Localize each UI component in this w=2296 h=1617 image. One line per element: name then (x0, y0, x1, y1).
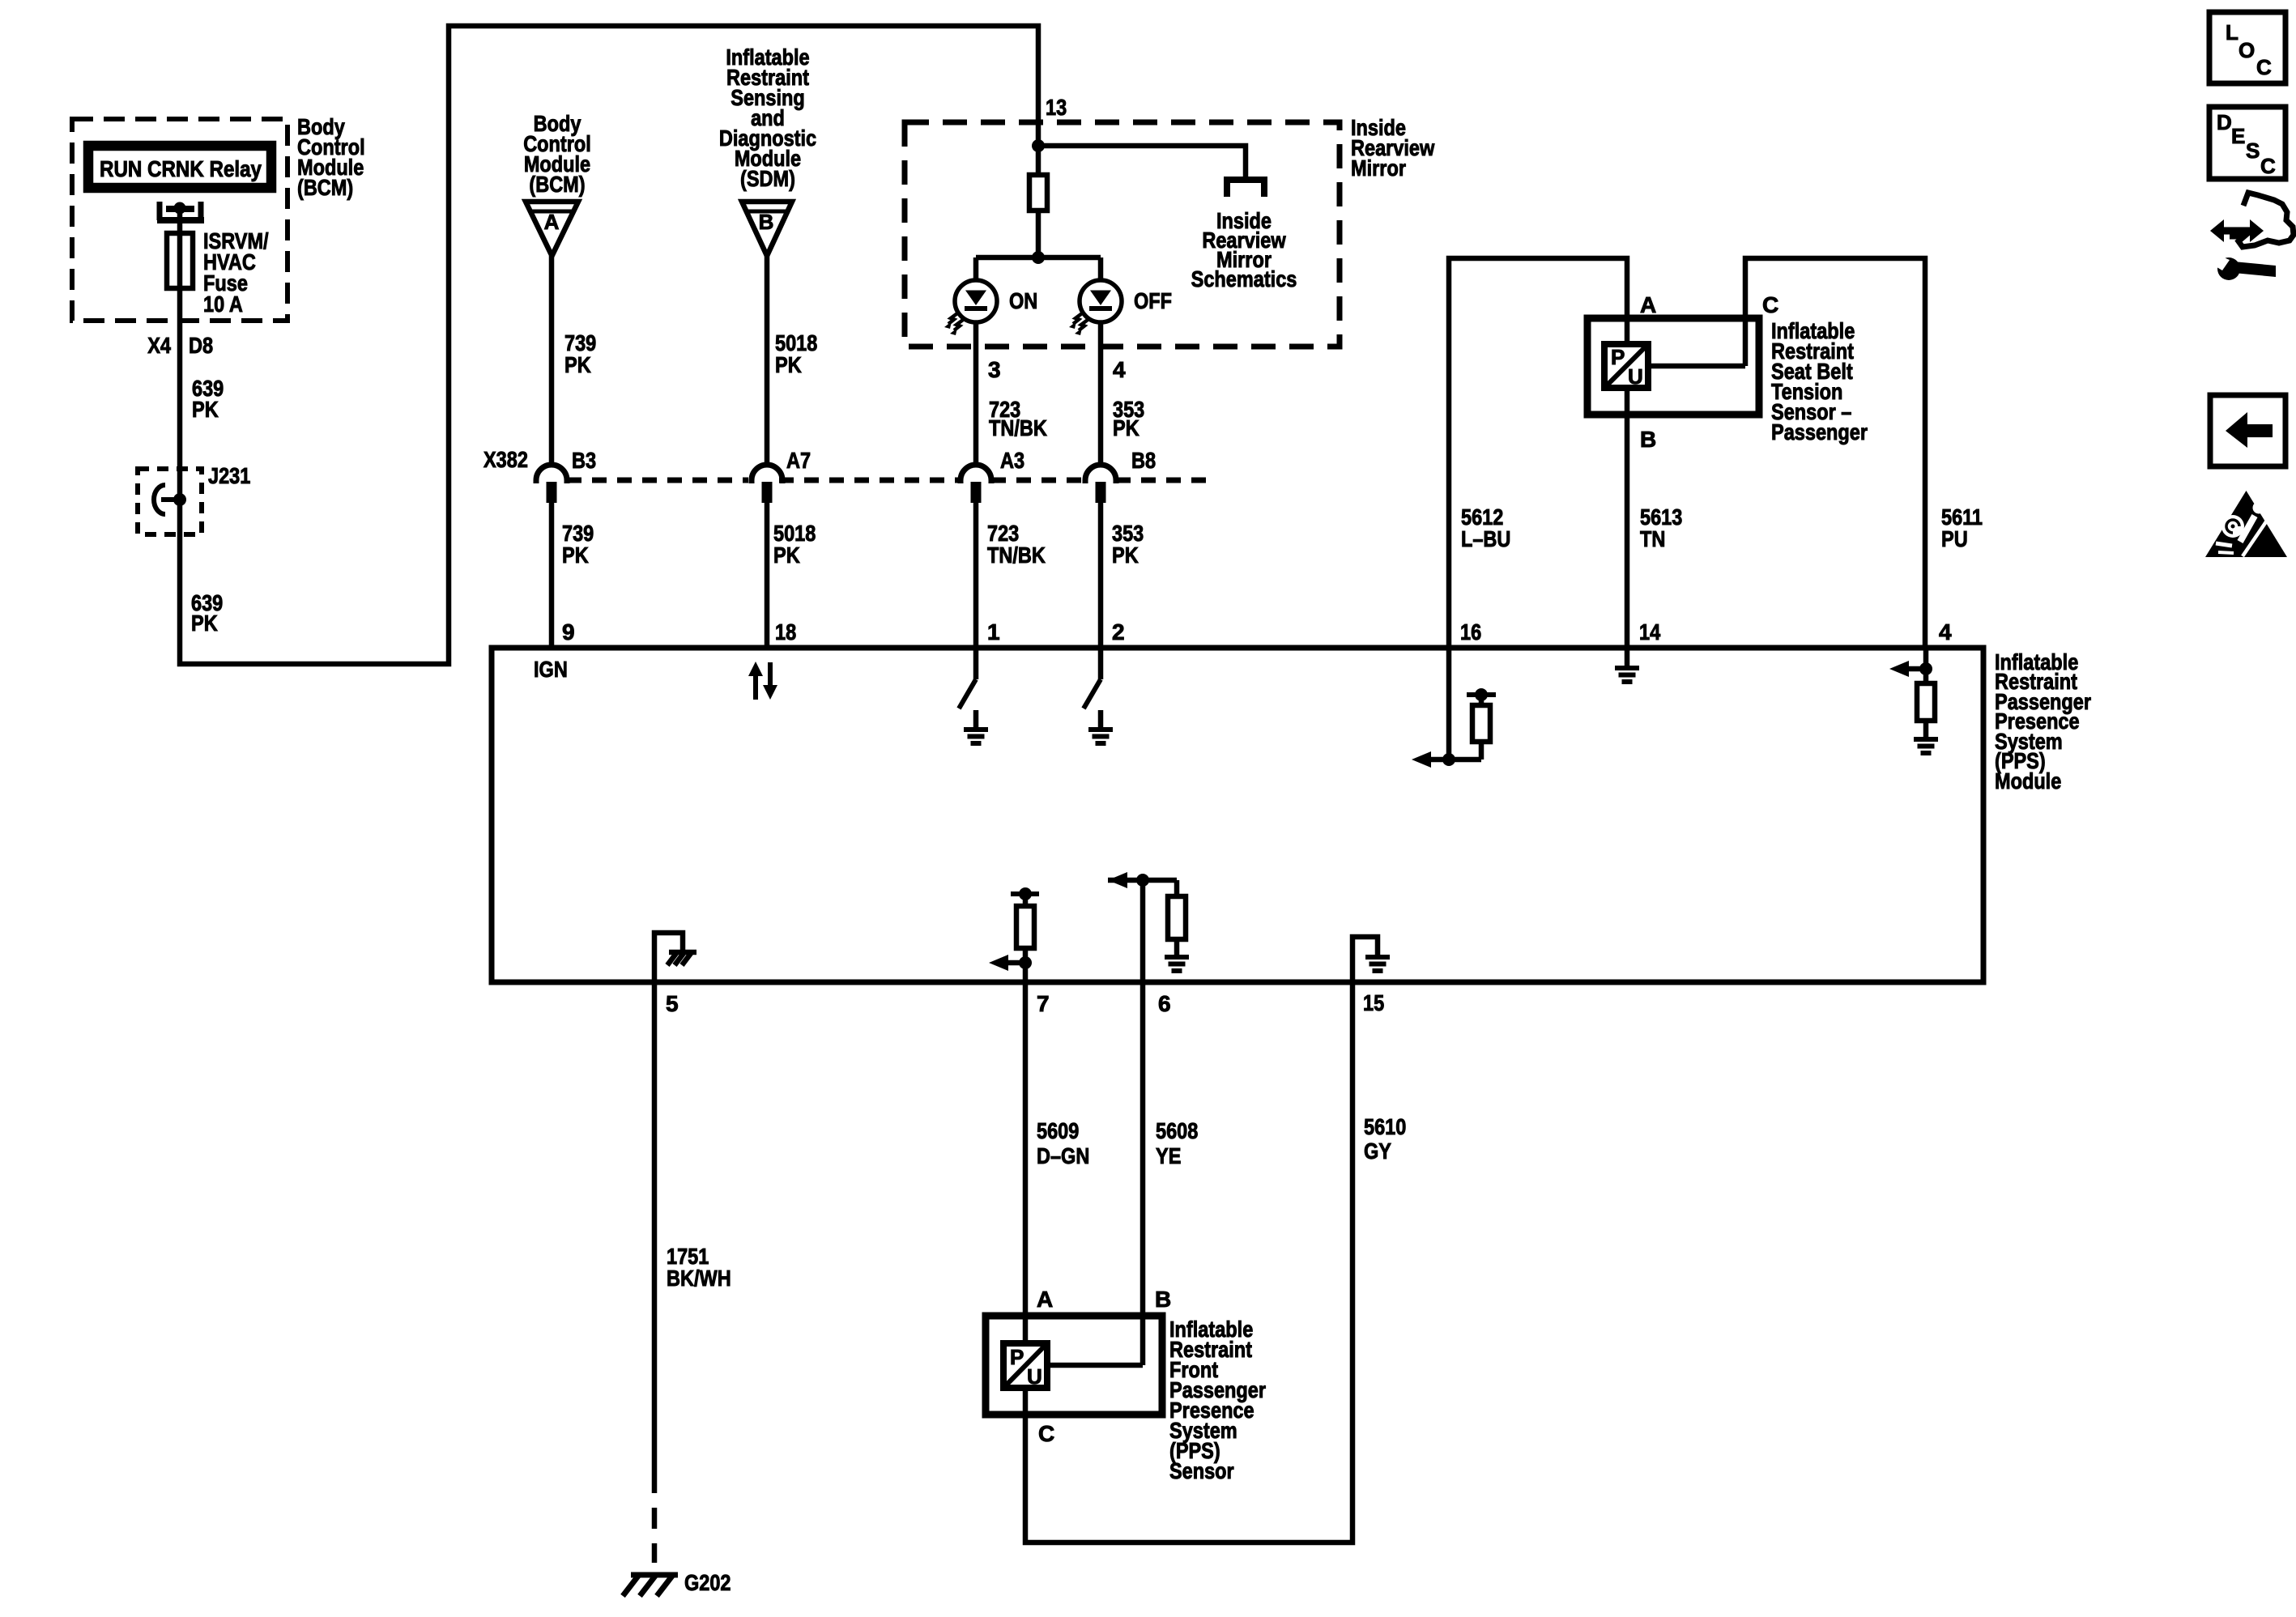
svg-text:13: 13 (1046, 95, 1067, 120)
resistor R (mirror internal) (1036, 146, 1042, 175)
node: junction wire 13 (1032, 139, 1045, 152)
svg-text:S: S (2246, 138, 2260, 163)
svg-text:(BCM): (BCM) (529, 172, 585, 197)
svg-text:X382: X382 (483, 447, 528, 472)
svg-text:PK: PK (775, 352, 802, 377)
svg-text:PK: PK (1112, 543, 1139, 568)
wire 5018 PK (A7 to module pin 18) (765, 502, 770, 648)
svg-text:4: 4 (1939, 619, 1952, 645)
svg-text:YE: YE (1156, 1143, 1181, 1168)
svg-text:(SDM): (SDM) (740, 166, 795, 191)
svg-text:5608: 5608 (1156, 1118, 1198, 1143)
svg-text:Schematics: Schematics (1191, 266, 1297, 291)
svg-text:P: P (1611, 345, 1625, 369)
svg-text:C: C (1762, 292, 1778, 317)
wire 723 TN/BK (A3 to module pin 1) (973, 502, 979, 648)
svg-text:14: 14 (1639, 619, 1661, 645)
relay K: RUN CRNK Relay (88, 146, 271, 188)
svg-text:A7: A7 (786, 448, 811, 473)
svg-text:PK: PK (773, 543, 800, 568)
svg-text:PU: PU (1941, 526, 1968, 551)
svg-text:18: 18 (775, 619, 796, 645)
wire 5608 YE (module pin 6 to sensor B) (1140, 982, 1146, 1365)
svg-text:15: 15 (1363, 990, 1384, 1015)
svg-text:X4: X4 (147, 333, 171, 358)
wire from relay to fuse (177, 208, 183, 233)
svg-text:U: U (1027, 1364, 1042, 1389)
svg-text:(BCM): (BCM) (297, 175, 353, 200)
LED OFF indicator (1098, 257, 1104, 280)
icon: adjust/repair hand with arrow and wrench (2210, 219, 2224, 242)
svg-text:GY: GY (1364, 1138, 1391, 1164)
pressure transducer P/U symbol (1604, 344, 1648, 388)
svg-text:L: L (2226, 20, 2238, 45)
splice J231 (138, 469, 202, 534)
connector X382 terminal A7 (752, 465, 782, 483)
wire sensor C to module pin 15 (5610 GY) (1023, 1388, 1029, 1415)
pin 4 internal pull-up resistor to ground (1923, 648, 1929, 683)
LED ON indicator (973, 257, 979, 280)
svg-text:PK: PK (564, 352, 591, 377)
svg-text:Sensor: Sensor (1169, 1458, 1234, 1483)
relay contact terminal (157, 202, 163, 220)
pin 14 internal ground (1625, 648, 1630, 668)
svg-text:U: U (1628, 364, 1643, 389)
wire 5613 TN (sensor B to module pin 14) (1625, 415, 1630, 648)
svg-text:6: 6 (1158, 991, 1171, 1016)
Inflatable Restraint Seat Belt Tension Sensor - Passenger box (1587, 318, 1759, 415)
connector X382 dashed line (567, 478, 748, 483)
wire 739 PK (B3 to module pin 9) (549, 502, 555, 648)
svg-text:L–BU: L–BU (1461, 526, 1510, 551)
svg-text:TN/BK: TN/BK (987, 543, 1046, 568)
pin 6 internal resistor to ground (1108, 878, 1177, 883)
ground G202 (631, 1572, 678, 1578)
svg-text:Passenger: Passenger (1771, 419, 1868, 445)
wire sensor C to module pin 4 (5611 PU) (1648, 364, 1745, 369)
pin 15 internal ground (1352, 937, 1378, 982)
wire 5018 PK (triangle B to X382 A7) (765, 256, 770, 466)
svg-text:5609: 5609 (1037, 1118, 1079, 1143)
svg-text:PK: PK (562, 543, 589, 568)
pin 16 internal sense resistor (1446, 648, 1452, 760)
svg-text:PK: PK (192, 397, 219, 422)
connector X382 terminal B8 (1085, 465, 1116, 483)
svg-text:Module: Module (1995, 768, 2061, 794)
switch S1 to ground (pin 1) (973, 648, 979, 679)
fuse F: ISRVM/HVAC Fuse 10 A (167, 233, 193, 288)
svg-text:J231: J231 (208, 463, 250, 488)
svg-text:G202: G202 (684, 1570, 731, 1595)
svg-text:TN/BK: TN/BK (989, 415, 1047, 440)
icon: SIR warning triangle (2205, 491, 2287, 557)
svg-text:C: C (1038, 1421, 1054, 1446)
svg-text:A: A (1640, 292, 1656, 317)
svg-text:5: 5 (666, 991, 679, 1016)
connector X382 terminal B3 (536, 465, 567, 483)
pin 18 bidirectional signal arrows (753, 676, 758, 700)
svg-text:IGN: IGN (534, 657, 568, 682)
Inflatable Restraint Passenger Presence System (PPS) Module box (492, 648, 1983, 982)
svg-text:A: A (1037, 1287, 1053, 1312)
svg-text:B: B (1155, 1287, 1171, 1312)
svg-text:E: E (2231, 124, 2245, 148)
pressure transducer P/U symbol (PPS sensor) (1003, 1343, 1047, 1388)
svg-text:7: 7 (1037, 991, 1050, 1016)
svg-text:16: 16 (1460, 619, 1481, 645)
svg-text:B3: B3 (572, 448, 596, 473)
off-page triangle B (SDM) (742, 202, 792, 256)
Body Control Module (BCM) dashed box (72, 119, 288, 321)
pin 5 internal chassis ground (654, 933, 683, 982)
wire 5609 D-GN (module pin 7 to sensor A) (1023, 982, 1029, 1316)
icon: back arrow box (2210, 395, 2285, 466)
connector X382 terminal A3 (961, 465, 991, 483)
svg-text:D: D (2217, 110, 2232, 134)
svg-text:B: B (759, 210, 774, 234)
wire 353 PK (B8 to module pin 2) (1098, 502, 1104, 648)
svg-text:BK/WH: BK/WH (667, 1266, 731, 1291)
wire 739 PK (triangle A to X382 B3) (549, 256, 555, 466)
svg-text:1: 1 (987, 619, 1000, 645)
svg-text:3: 3 (988, 357, 1001, 382)
connector to mirror schematics (bracket) (1227, 180, 1264, 197)
Inflatable Restraint Front Passenger Presence System (PPS) Sensor box (986, 1316, 1162, 1415)
svg-text:ON: ON (1009, 288, 1037, 313)
wire 723 TN/BK pin 3 (mirror to X382 A3) (973, 322, 979, 466)
svg-text:O: O (2238, 38, 2255, 62)
svg-text:10 A: 10 A (203, 291, 243, 317)
svg-text:B8: B8 (1131, 448, 1156, 473)
svg-text:RUN CRNK Relay: RUN CRNK Relay (100, 156, 262, 181)
node: LED branch junction (1032, 251, 1045, 264)
svg-text:P: P (1010, 1345, 1024, 1369)
svg-text:TN: TN (1640, 526, 1665, 551)
Inside Rearview Mirror dashed box (905, 122, 1340, 347)
wire 5612 L-BU (module pin 16 to sensor A) (1449, 258, 1627, 648)
svg-text:Mirror: Mirror (1351, 155, 1406, 181)
svg-text:PK: PK (1113, 415, 1139, 440)
svg-text:C: C (2256, 55, 2272, 79)
icon: DESC box (2209, 107, 2285, 179)
svg-text:5610: 5610 (1364, 1114, 1406, 1139)
wire 639 PK (fuse to J231) (177, 288, 183, 469)
svg-text:9: 9 (562, 619, 575, 645)
svg-text:C: C (2260, 154, 2276, 178)
svg-text:PK: PK (191, 611, 218, 636)
wire 1751 BK/WH (pin 5 to G202) (652, 982, 658, 1493)
wire to inside rearview mirror schematics connector (1038, 146, 1246, 180)
svg-text:OFF: OFF (1134, 288, 1172, 313)
wire 353 PK pin 4 (mirror to X382 B8) (1098, 322, 1104, 466)
svg-text:A: A (544, 210, 560, 234)
svg-text:2: 2 (1112, 619, 1125, 645)
svg-text:D8: D8 (189, 333, 213, 358)
svg-text:4: 4 (1113, 357, 1126, 382)
off-page triangle A (BCM) (526, 202, 578, 256)
svg-text:D–GN: D–GN (1037, 1143, 1089, 1168)
icon: LOC box (2209, 12, 2285, 83)
pin 7 internal resistor (1011, 891, 1039, 896)
switch S2 to ground (pin 2) (1098, 648, 1104, 679)
svg-text:B: B (1640, 427, 1656, 452)
svg-text:A3: A3 (1000, 448, 1024, 473)
